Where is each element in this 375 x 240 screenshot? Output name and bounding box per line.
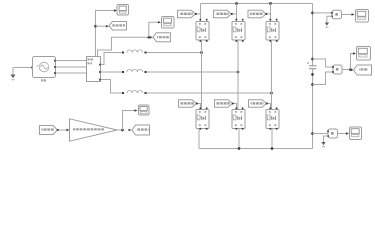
inductor La [122,50,147,54]
wire rail to SM1 top [200,4,202,22]
wire Vabc measurement output up [96,11,115,57]
wire from tag to gain [58,129,67,131]
from tag SM_L3 [249,100,267,108]
wire inductor Lb to leg2 [147,71,239,73]
node rail leg3 [269,2,272,5]
node bus cap top [311,58,314,61]
port at tag SM_L3 tip [266,103,268,105]
inductor Lc [122,90,147,94]
wire SM_L1 to gate [197,104,201,110]
top DC rail [201,3,313,5]
port at tag SM_L2 tip [232,103,234,105]
wire junction to goto Is_abc [150,36,153,38]
wire leg1 mid vertical [201,40,203,110]
goto tag Is_abc [153,33,171,42]
wire SM_L2 to gate [233,104,237,110]
scope Scope2 [162,17,175,29]
IGBT SM_M3 block [266,19,279,42]
goto tag Vdc_ref [132,125,150,135]
wire gain output [117,129,123,131]
wire vm1 minus to ground [327,16,332,22]
node rail leg2 [235,2,238,5]
node gain output [121,129,124,132]
IGBT SM_M1 block [196,19,209,42]
wire cap bottom branch to vm2 minus [313,72,334,85]
IGBT SM_L1 block [196,108,209,130]
node bus below cap [311,73,314,76]
node rail leg3 bottom [271,147,274,150]
node rail leg2 bottom [238,147,241,150]
wire node up to Scope6 [123,111,135,131]
wire node to goto Vdc [351,69,354,71]
wire vm2 output [342,69,351,71]
node bus bottom measurement tap [311,132,314,135]
node phase A [200,51,203,54]
voltage measurement vm3 [327,129,337,138]
port at tag SM_M3 tip [265,13,267,15]
node bus top measurement tap [311,12,314,15]
goto tag Vdc [354,65,372,75]
wire ground to source [13,67,33,69]
wire source B to measurement [56,66,87,68]
node phase C [270,92,273,95]
ground symbol G1 (left of source) [11,68,16,80]
node phase B [237,71,240,74]
wire SM_L3 to gate [267,104,271,110]
wire bus to vm3 [313,133,329,135]
junction on Iabc wire [147,36,150,39]
inductor Lb [122,69,147,73]
three-phase V-I measurement block [87,57,101,82]
port at tag Vdc_abc tip [57,129,59,131]
voltage measurement vm2 [332,65,342,74]
wire leg3 mid vertical [271,40,273,110]
wire rail to SM2 top [236,4,238,22]
wire SM_M1 to gate [196,14,201,22]
capacitor C1 plates [307,62,317,69]
wire vm3 minus to ground [324,136,329,142]
gain triangle K1 [70,119,118,141]
wire cap top to vm2 plus [313,59,334,67]
IGBT SM_M2 block [232,19,245,42]
scope Scope6 [139,105,150,115]
IGBT SM_L2 block [232,108,245,130]
wire rail to SM3 top [270,4,272,22]
node bus branch bottom [311,83,314,86]
from tag SM_M2 [214,10,232,18]
wire SM_M3 to gate [266,14,271,22]
from tag SM_L1 [179,100,197,108]
from tag SM_M3 [248,10,266,18]
from tag SM_M1 [178,10,196,18]
wire SM_M2 to gate [232,14,237,22]
wire junction up to Scope2 [149,22,158,37]
voltage measurement vm1 [331,10,341,18]
port at tag SM_L1 tip [196,103,198,105]
node vm2 output [349,68,352,71]
scope Scope4 [356,10,369,23]
port at tag SM_M1 tip [195,13,197,15]
scope Scope5 [350,127,362,140]
wire inductor Lc to leg3 [147,92,272,94]
scope Scope3 [357,47,371,61]
wire SM_L1 bottom to rail [198,129,200,149]
port at tag SM_M2 tip [231,13,233,15]
wire SM_L2 bottom to rail [238,129,240,149]
DC bus right vertical [312,4,314,149]
wire phase A bend to inductor [101,53,124,65]
wire Iabc measurement output [98,37,149,56]
AC source U1 [33,57,56,82]
scope Scope1 [117,5,129,16]
wire junction to goto Vs_abc [96,25,107,27]
wire phase C bend to inductor [101,80,124,94]
wire phase B to inductor [101,71,124,73]
wire vm3 to Scope5 [338,133,347,135]
bottom DC rail [199,148,313,150]
wire leg2 mid vertical [237,40,239,110]
junction on Vabc wire [94,25,97,28]
ground G3 [321,142,325,147]
wire node to Scope3 [351,54,354,70]
wire vm1 to Scope4 [342,14,352,16]
wire source C to measurement [56,72,87,74]
wire source A to measurement [56,60,87,62]
wire inductor La to leg1 [147,52,202,54]
wire bus to vm1 [313,12,333,14]
node at source left port [31,67,33,69]
wire SM_L3 bottom to rail [271,129,273,149]
wire node to goto Vdc_ref [129,129,132,131]
IGBT SM_L3 block [266,108,279,130]
ground G2 [325,23,329,28]
goto tag Vs_abc [109,22,127,31]
from tag Vdc_abc (bottom left) [40,126,58,135]
from tag SM_L2 [215,100,233,108]
